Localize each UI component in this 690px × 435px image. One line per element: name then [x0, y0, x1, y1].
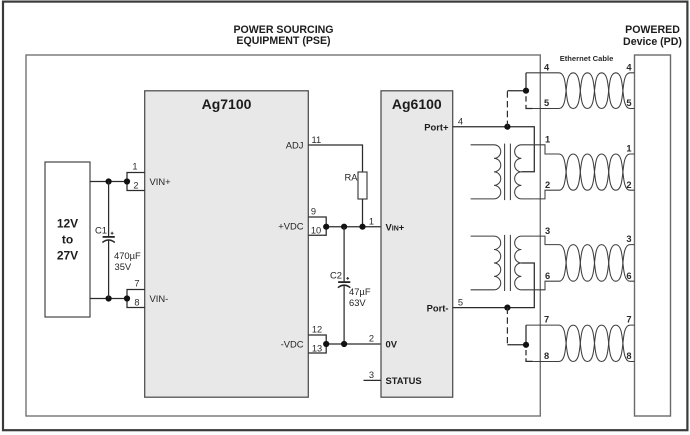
twisted pair pins 4/5 [526, 73, 635, 109]
svg-text:4: 4 [458, 116, 463, 126]
svg-text:5: 5 [458, 297, 463, 307]
wire ADJ pin 11 [308, 135, 362, 172]
svg-text:3: 3 [545, 226, 550, 236]
junction node Port- [504, 305, 510, 311]
wire VIN- from source [90, 298, 127, 300]
dashed wire spare top to pin5 [526, 96, 533, 108]
svg-text:to: to [62, 233, 73, 247]
twisted pair pins 7/8 [526, 325, 635, 361]
svg-text:Ethernet Cable: Ethernet Cable [560, 54, 614, 63]
wire spare-pair link top [507, 73, 526, 91]
junction node VIN+ [106, 178, 112, 184]
pin fork U1 pins 12/13 [308, 324, 326, 353]
junction node fork9/10 [323, 224, 329, 230]
svg-text:3: 3 [369, 370, 374, 380]
svg-text:1: 1 [545, 135, 550, 145]
PSE enclosure box [26, 55, 540, 416]
pin stub U2 STATUS pin 3 [364, 370, 382, 380]
svg-text:VIN-: VIN- [150, 293, 169, 304]
svg-text:6: 6 [626, 271, 631, 281]
svg-text:Ag7100: Ag7100 [202, 96, 252, 112]
svg-text:4: 4 [626, 62, 632, 72]
transformer T1 primary winding and core [471, 144, 511, 201]
svg-text:Port-: Port- [427, 302, 449, 313]
junction node Port+ [504, 124, 510, 130]
wire RADJ to VIN+ node [362, 199, 364, 227]
PD enclosure box [635, 55, 671, 416]
dashed wire Port+ to spare top [506, 91, 508, 127]
svg-text:47µF: 47µF [349, 286, 371, 297]
svg-text:5: 5 [544, 98, 549, 108]
junction node pin8 [124, 295, 130, 301]
label POWERED Device (PD) [623, 24, 682, 48]
svg-text:12V: 12V [57, 217, 78, 231]
svg-text:8: 8 [544, 351, 549, 361]
svg-text:1: 1 [626, 143, 631, 153]
junction node VIN- [106, 295, 112, 301]
transformer T2 primary winding and core [471, 235, 511, 291]
svg-text:8: 8 [626, 351, 631, 361]
svg-text:ADJ: ADJ [286, 139, 304, 150]
svg-text:7: 7 [134, 278, 139, 288]
svg-text:0V: 0V [386, 338, 398, 349]
pin fork U1 pins 7/8 [127, 278, 145, 307]
transformer T2 secondary winding [515, 236, 535, 290]
svg-text:13: 13 [312, 344, 322, 354]
svg-text:9: 9 [311, 206, 316, 216]
capacitor C1 470uF 35V [95, 182, 141, 299]
svg-text:Ag6100: Ag6100 [392, 96, 442, 112]
resistor RADJ [344, 171, 367, 199]
wire spare-pair link bottom [507, 325, 526, 345]
twisted pair pins 1/2 [534, 145, 634, 199]
svg-text:7: 7 [626, 315, 631, 325]
svg-text:POWERED: POWERED [625, 24, 680, 36]
wire Port+ pin 4 to T1 center tap [453, 116, 535, 171]
svg-text:C1: C1 [95, 225, 107, 236]
svg-text:63V: 63V [349, 297, 366, 308]
twisted pair pins 3/6 [534, 236, 634, 290]
capacitor C2 47uF 63V [330, 227, 371, 344]
wire +VDC to U2 VIN+ [326, 216, 381, 226]
svg-text:C2: C2 [330, 270, 342, 281]
DC source 12V to 27V [45, 162, 90, 317]
chip U2 Ag6100 [381, 91, 453, 397]
svg-text:2: 2 [369, 334, 374, 344]
junction node C2 top [341, 224, 347, 230]
svg-text:2: 2 [133, 180, 138, 190]
svg-text:12: 12 [312, 324, 322, 334]
svg-text:7: 7 [544, 315, 549, 325]
svg-text:2: 2 [545, 180, 550, 190]
op chip U1 Ag7100 [145, 91, 309, 397]
transformer T1 secondary winding [515, 145, 535, 199]
junction node RADJ bottom [359, 224, 365, 230]
svg-text:5: 5 [626, 98, 631, 108]
svg-text:11: 11 [312, 135, 322, 145]
wire VIN+ from source [90, 181, 127, 183]
dashed wire spare bottom to pin8 [526, 350, 533, 361]
svg-text:1: 1 [369, 216, 374, 226]
junction node pin2 [124, 178, 130, 184]
svg-text:10: 10 [311, 226, 321, 236]
svg-text:6: 6 [545, 271, 550, 281]
svg-text:27V: 27V [57, 249, 78, 263]
svg-text:4: 4 [544, 62, 550, 72]
wire -VDC to U2 0V [326, 334, 381, 344]
svg-text:RA: RA [344, 171, 358, 182]
label POWER SOURCING EQUIPMENT (PSE) [233, 24, 333, 47]
junction node fork12/13 [323, 341, 329, 347]
svg-text:+VDC: +VDC [278, 220, 303, 231]
svg-text:Port+: Port+ [424, 122, 449, 133]
svg-text:1: 1 [132, 161, 137, 171]
pin fork U1 pins 1/2 [127, 161, 145, 190]
svg-text:STATUS: STATUS [386, 375, 422, 386]
pin fork U1 pins 9/10 [308, 206, 326, 235]
svg-text:VIN+: VIN+ [150, 176, 172, 187]
svg-text:470µF: 470µF [114, 250, 141, 261]
svg-text:2: 2 [626, 180, 631, 190]
junction node C2 bottom [341, 341, 347, 347]
wire Port- pin 5 to T2 center tap [453, 263, 535, 308]
svg-text:-VDC: -VDC [281, 338, 304, 349]
svg-text:3: 3 [626, 234, 631, 244]
dashed wire Port- to spare bottom [506, 308, 508, 345]
svg-text:EQUIPMENT (PSE): EQUIPMENT (PSE) [236, 35, 330, 47]
junction node spare bottom [523, 342, 529, 348]
junction node spare top [523, 88, 529, 94]
svg-text:35V: 35V [115, 261, 132, 272]
svg-text:8: 8 [134, 297, 139, 307]
svg-text:Device (PD): Device (PD) [623, 36, 682, 48]
